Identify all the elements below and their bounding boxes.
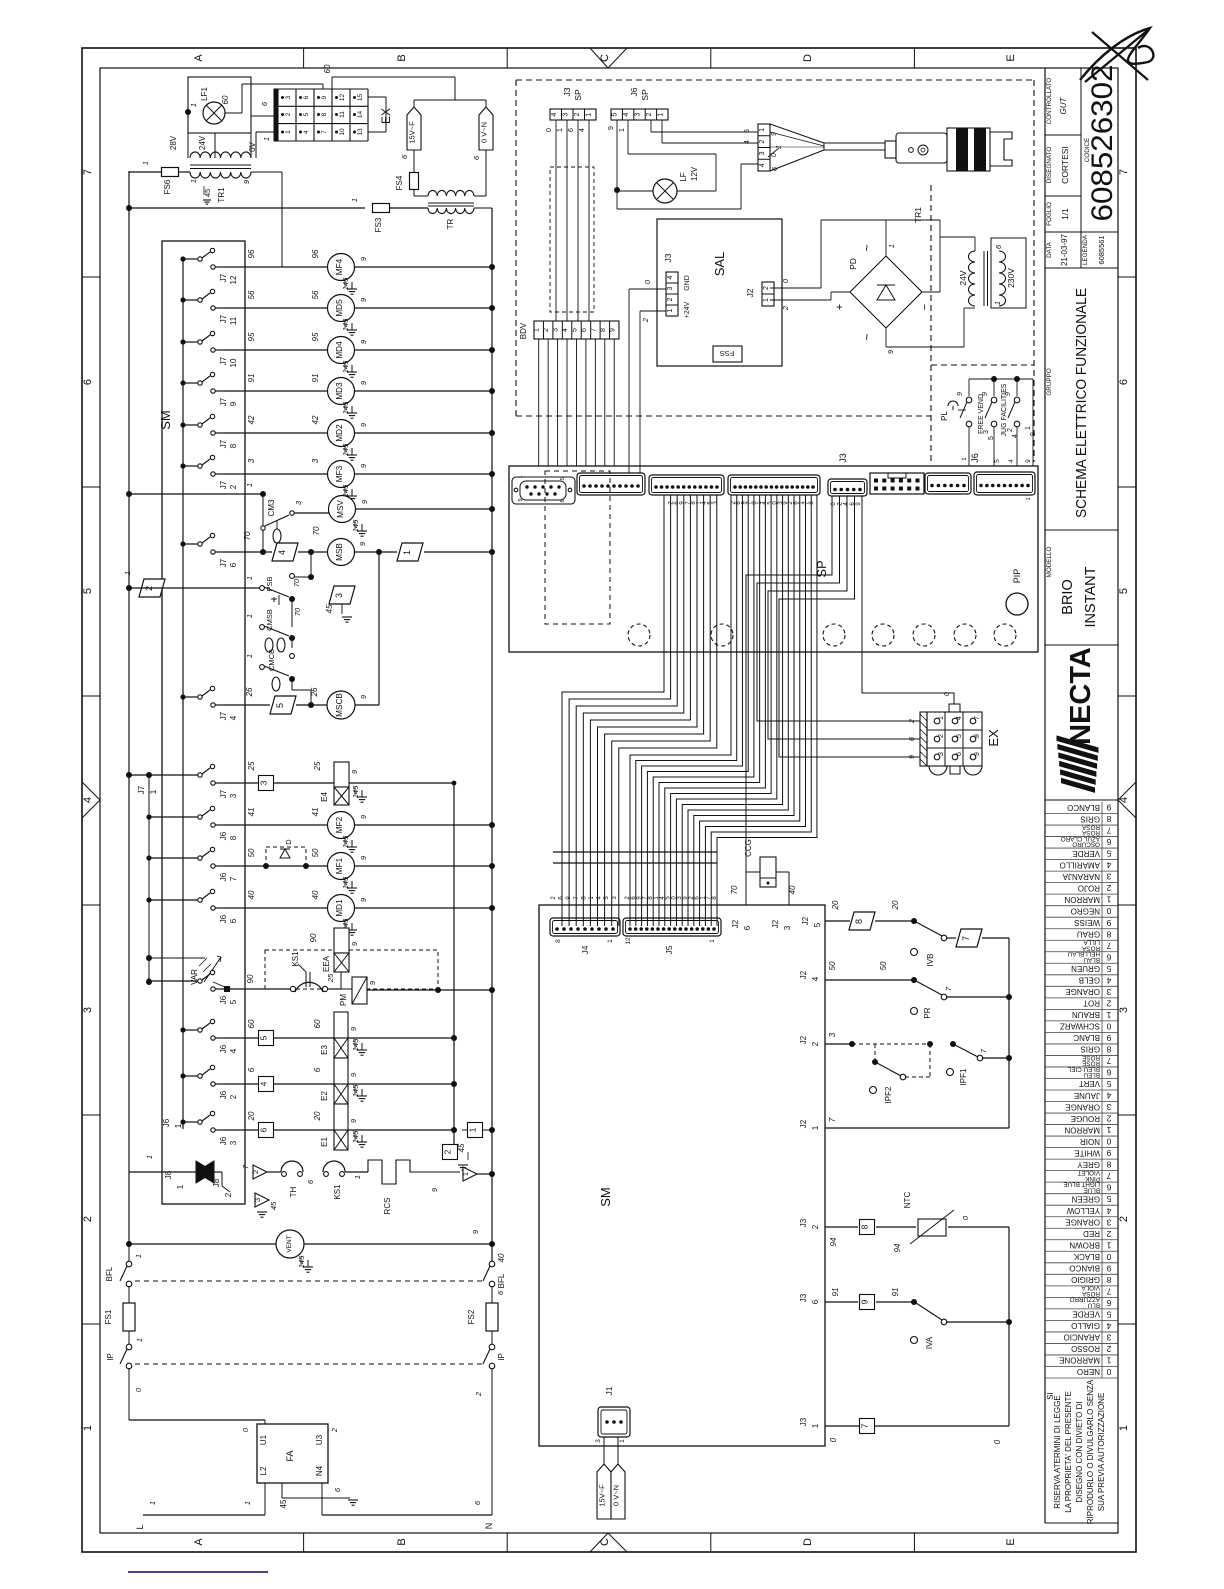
svg-text:GREEN: GREEN — [1071, 1194, 1100, 1203]
svg-text:4: 4 — [1012, 434, 1019, 438]
svg-text:7: 7 — [1106, 1171, 1111, 1181]
svg-text:12: 12 — [339, 94, 346, 102]
svg-text:11: 11 — [229, 316, 238, 325]
svg-text:3: 3 — [553, 328, 560, 332]
svg-text:9: 9 — [909, 755, 916, 759]
svg-text:1: 1 — [1025, 426, 1032, 430]
svg-text:3: 3 — [759, 151, 766, 155]
svg-text:MSV: MSV — [336, 500, 345, 518]
svg-text:1: 1 — [176, 1184, 185, 1189]
svg-text:95: 95 — [311, 332, 320, 341]
svg-text:2: 2 — [759, 140, 766, 144]
svg-text:+: + — [834, 304, 846, 310]
svg-text:1: 1 — [887, 244, 896, 248]
svg-text:3: 3 — [259, 780, 269, 785]
svg-text:7: 7 — [961, 936, 971, 941]
svg-text:96: 96 — [247, 249, 256, 258]
svg-text:0: 0 — [1106, 1252, 1111, 1262]
svg-text:3: 3 — [667, 286, 674, 290]
svg-text:91: 91 — [831, 1288, 840, 1297]
svg-text:2: 2 — [909, 719, 916, 724]
svg-text:1: 1 — [145, 1155, 154, 1159]
svg-text:15V~F: 15V~F — [408, 121, 417, 144]
svg-text:CMCB: CMCB — [267, 649, 276, 671]
svg-text:GRAU: GRAU — [1077, 929, 1100, 938]
svg-text:J7: J7 — [219, 439, 228, 448]
svg-text:20: 20 — [831, 900, 840, 910]
svg-text:1: 1 — [245, 614, 254, 618]
svg-text:1: 1 — [811, 1125, 820, 1130]
svg-text:RIPRODURLO O DIVULGARLO SENZA: RIPRODURLO O DIVULGARLO SENZA — [1086, 1379, 1095, 1524]
svg-text:4: 4 — [229, 1048, 238, 1053]
svg-text:FSS: FSS — [720, 349, 735, 358]
svg-text:TR1: TR1 — [913, 207, 923, 223]
svg-text:1: 1 — [245, 483, 254, 487]
svg-text:VERT: VERT — [1079, 1079, 1100, 1088]
svg-text:TH: TH — [289, 1186, 298, 1197]
svg-text:10: 10 — [339, 128, 346, 136]
svg-text:56: 56 — [311, 290, 320, 299]
svg-text:ORANGE: ORANGE — [1065, 1102, 1100, 1111]
svg-text:5: 5 — [572, 328, 579, 332]
svg-text:2: 2 — [82, 1216, 94, 1222]
svg-text:1: 1 — [189, 103, 198, 107]
svg-text:1: 1 — [461, 1172, 470, 1176]
svg-text:NERO: NERO — [1077, 1367, 1100, 1376]
svg-text:608526302: 608526302 — [1086, 65, 1119, 222]
svg-text:1: 1 — [134, 1254, 143, 1258]
svg-text:CM3: CM3 — [267, 499, 276, 516]
svg-text:40: 40 — [311, 890, 320, 899]
svg-text:3: 3 — [1106, 1217, 1111, 1227]
svg-text:J7: J7 — [137, 785, 146, 794]
svg-text:3: 3 — [247, 458, 256, 463]
svg-text:1: 1 — [961, 457, 968, 461]
svg-text:MF3: MF3 — [335, 465, 344, 482]
svg-text:8: 8 — [1106, 929, 1111, 939]
svg-text:E4: E4 — [320, 792, 329, 802]
svg-text:6: 6 — [1106, 837, 1111, 847]
svg-text:6: 6 — [811, 1299, 820, 1304]
svg-text:0: 0 — [546, 128, 553, 132]
svg-text:50: 50 — [247, 848, 256, 857]
svg-text:MD5: MD5 — [335, 299, 344, 317]
svg-text:9: 9 — [1025, 459, 1032, 463]
svg-text:J3: J3 — [838, 453, 848, 463]
svg-text:50: 50 — [311, 848, 320, 857]
svg-text:NEGRO: NEGRO — [1071, 906, 1100, 915]
svg-text:J7: J7 — [219, 273, 228, 282]
svg-text:70: 70 — [312, 526, 321, 535]
svg-text:ROT: ROT — [1083, 999, 1100, 1008]
svg-text:1: 1 — [811, 1423, 820, 1428]
svg-text:J2: J2 — [799, 1035, 808, 1044]
svg-text:4: 4 — [259, 1081, 269, 1086]
svg-text:3: 3 — [334, 593, 344, 598]
svg-text:BROWN: BROWN — [1069, 1241, 1100, 1250]
svg-text:BLAU: BLAU — [1083, 956, 1100, 963]
svg-text:26: 26 — [245, 687, 254, 697]
svg-text:GRUEN: GRUEN — [1071, 964, 1100, 973]
svg-text:BLANCO: BLANCO — [1067, 803, 1100, 812]
svg-text:3: 3 — [1106, 987, 1111, 997]
svg-text:CCG: CCG — [744, 839, 753, 857]
svg-text:1: 1 — [938, 716, 945, 720]
svg-text:91: 91 — [247, 374, 256, 383]
svg-text:3: 3 — [253, 1198, 262, 1202]
svg-text:1: 1 — [285, 130, 292, 134]
svg-text:9: 9 — [974, 752, 981, 756]
svg-text:4: 4 — [744, 140, 751, 144]
svg-text:2: 2 — [443, 1149, 453, 1154]
svg-text:8: 8 — [555, 939, 562, 943]
svg-text:TR: TR — [446, 218, 455, 229]
svg-text:2: 2 — [1106, 1344, 1111, 1354]
svg-text:8: 8 — [229, 835, 238, 840]
svg-text:24V: 24V — [198, 135, 207, 150]
svg-text:MSCB: MSCB — [335, 693, 344, 717]
svg-text:1: 1 — [1118, 1425, 1130, 1431]
svg-text:7: 7 — [321, 130, 328, 134]
svg-text:5: 5 — [1106, 964, 1111, 974]
svg-text:8: 8 — [1106, 1160, 1111, 1170]
svg-text:6: 6 — [259, 1127, 269, 1132]
svg-text:0: 0 — [1106, 1021, 1111, 1031]
svg-text:1: 1 — [141, 161, 150, 165]
svg-text:MARRONE: MARRONE — [1059, 1356, 1100, 1365]
svg-text:0 V~N: 0 V~N — [480, 122, 489, 143]
svg-text:1: 1 — [759, 128, 766, 132]
svg-text:VENT: VENT — [286, 1235, 293, 1252]
svg-text:ROSSO: ROSSO — [1071, 1344, 1100, 1353]
svg-text:U1: U1 — [259, 1434, 268, 1445]
svg-text:J7: J7 — [219, 356, 228, 365]
svg-text:20: 20 — [313, 1111, 322, 1121]
svg-text:12: 12 — [625, 937, 632, 945]
svg-text:RCS: RCS — [383, 1198, 392, 1215]
svg-text:2: 2 — [224, 1192, 233, 1197]
svg-text:5: 5 — [956, 734, 963, 738]
svg-text:12V: 12V — [690, 166, 699, 181]
svg-text:9: 9 — [1106, 1033, 1111, 1043]
svg-text:D: D — [802, 54, 814, 62]
svg-text:25: 25 — [247, 761, 256, 771]
svg-text:J6: J6 — [629, 87, 639, 96]
svg-text:NARANJA: NARANJA — [1062, 872, 1100, 881]
svg-text:J2: J2 — [771, 919, 780, 928]
svg-text:6: 6 — [229, 918, 238, 923]
svg-text:2: 2 — [641, 317, 650, 323]
svg-text:PL: PL — [940, 411, 949, 421]
svg-text:A: A — [193, 54, 205, 62]
svg-text:SUA PREVIA AUTORIZZAZIONE: SUA PREVIA AUTORIZZAZIONE — [1097, 1393, 1106, 1512]
svg-text:2: 2 — [1106, 883, 1111, 893]
svg-text:45: 45 — [279, 1499, 288, 1508]
svg-text:3: 3 — [1106, 1102, 1111, 1112]
svg-text:MD4: MD4 — [335, 341, 344, 359]
svg-text:7: 7 — [1106, 941, 1111, 951]
svg-text:9: 9 — [608, 126, 615, 130]
svg-text:MD1: MD1 — [335, 899, 344, 917]
svg-text:KS1: KS1 — [333, 1184, 342, 1200]
svg-text:0: 0 — [829, 1437, 838, 1442]
svg-text:BFL: BFL — [497, 1273, 506, 1288]
svg-text:EX: EX — [986, 729, 1001, 747]
svg-text:2: 2 — [1106, 1229, 1111, 1239]
svg-text:4: 4 — [1106, 1321, 1111, 1331]
svg-text:3: 3 — [1106, 872, 1111, 882]
svg-text:WEISS: WEISS — [1074, 918, 1100, 927]
svg-text:6: 6 — [568, 128, 575, 132]
svg-text:1: 1 — [619, 1439, 626, 1443]
svg-text:0: 0 — [1106, 906, 1111, 916]
svg-text:3: 3 — [938, 752, 945, 756]
svg-text:1: 1 — [262, 137, 271, 141]
svg-text:SCHWARZ: SCHWARZ — [1060, 1022, 1100, 1031]
svg-text:TR1: TR1 — [217, 187, 226, 203]
svg-text:9: 9 — [1106, 1148, 1111, 1158]
svg-text:1: 1 — [1106, 1356, 1111, 1366]
svg-text:D: D — [284, 839, 293, 845]
svg-text:J6: J6 — [219, 1044, 228, 1053]
svg-text:J2: J2 — [799, 970, 808, 979]
svg-text:SM: SM — [158, 410, 173, 430]
svg-text:2: 2 — [811, 1224, 820, 1229]
svg-text:IVB: IVB — [926, 954, 935, 967]
svg-text:70: 70 — [293, 607, 302, 616]
svg-text:20: 20 — [891, 900, 900, 910]
svg-text:5: 5 — [1106, 1309, 1111, 1319]
svg-text:2: 2 — [229, 1094, 238, 1099]
svg-text:MF1: MF1 — [335, 857, 344, 874]
svg-text:DATA: DATA — [1046, 241, 1053, 258]
svg-text:145: 145 — [351, 1038, 360, 1051]
svg-text:ARANCIO: ARANCIO — [1064, 1333, 1100, 1342]
svg-text:GRIS: GRIS — [1080, 814, 1100, 823]
svg-text:1: 1 — [189, 179, 198, 183]
svg-text:15: 15 — [357, 94, 364, 102]
svg-text:5: 5 — [303, 112, 310, 116]
svg-text:PM: PM — [339, 994, 348, 1006]
svg-text:25: 25 — [313, 761, 322, 771]
svg-text:15V~F: 15V~F — [598, 1484, 607, 1507]
svg-text:41: 41 — [247, 808, 256, 817]
svg-text:PIP: PIP — [1012, 569, 1022, 584]
svg-text:4: 4 — [277, 550, 287, 555]
svg-text:1: 1 — [245, 576, 254, 580]
svg-text:MF2: MF2 — [335, 816, 344, 833]
svg-text:LF: LF — [679, 172, 688, 181]
svg-text:J7: J7 — [219, 397, 228, 406]
svg-text:E: E — [1005, 1538, 1017, 1545]
svg-text:BRAUN: BRAUN — [1072, 1010, 1100, 1019]
svg-text:PSB: PSB — [265, 576, 274, 591]
svg-text:2: 2 — [474, 1391, 483, 1397]
svg-text:CORTESI: CORTESI — [1060, 146, 1070, 184]
svg-text:L2: L2 — [259, 1466, 268, 1475]
svg-text:NECTA: NECTA — [1065, 647, 1097, 745]
svg-text:PR: PR — [923, 1007, 932, 1018]
svg-text:FS2: FS2 — [467, 1309, 476, 1324]
svg-text:25: 25 — [326, 973, 335, 983]
svg-text:J6: J6 — [162, 1118, 171, 1127]
svg-text:LEGENDA: LEGENDA — [1082, 234, 1089, 265]
svg-text:IP: IP — [106, 1353, 115, 1361]
svg-text:J6: J6 — [219, 1136, 228, 1145]
svg-text:1: 1 — [402, 550, 412, 555]
svg-text:96: 96 — [311, 249, 320, 258]
svg-text:70: 70 — [730, 885, 739, 894]
svg-text:9: 9 — [1106, 803, 1111, 813]
svg-text:1: 1 — [657, 112, 664, 116]
svg-text:D: D — [802, 1538, 814, 1546]
svg-text:1: 1 — [709, 939, 716, 943]
svg-text:C: C — [599, 1538, 611, 1546]
svg-text:J7: J7 — [219, 789, 228, 798]
svg-text:94: 94 — [893, 1243, 902, 1252]
svg-text:2: 2 — [938, 734, 945, 738]
svg-text:5: 5 — [1106, 849, 1111, 859]
svg-text:ORANGE: ORANGE — [1065, 987, 1100, 996]
svg-text:DISEGNATO: DISEGNATO — [1046, 147, 1053, 184]
svg-text:CONTROLLATO: CONTROLLATO — [1046, 78, 1053, 125]
svg-text:CMSB: CMSB — [265, 609, 274, 631]
svg-text:45: 45 — [457, 1143, 466, 1152]
svg-text:24V: 24V — [958, 270, 968, 285]
svg-text:J7: J7 — [219, 558, 228, 567]
svg-text:5: 5 — [744, 129, 751, 133]
svg-text:2: 2 — [1118, 1216, 1130, 1222]
svg-text:BLANC: BLANC — [1073, 1033, 1100, 1042]
svg-text:145: 145 — [341, 277, 350, 290]
svg-text:3: 3 — [1106, 1332, 1111, 1342]
svg-text:4: 4 — [1106, 975, 1111, 985]
svg-text:1: 1 — [350, 198, 359, 202]
svg-text:YELLOW: YELLOW — [1066, 1206, 1100, 1215]
svg-text:1: 1 — [619, 128, 626, 132]
svg-text:J7: J7 — [219, 480, 228, 489]
svg-text:~: ~ — [860, 333, 874, 340]
svg-text:42: 42 — [247, 415, 256, 424]
svg-text:1: 1 — [518, 475, 524, 478]
svg-text:IPF2: IPF2 — [884, 1086, 893, 1103]
svg-text:40: 40 — [788, 885, 797, 894]
svg-text:MF4: MF4 — [335, 258, 344, 275]
svg-text:GREY: GREY — [1077, 1160, 1100, 1169]
svg-text:VAR: VAR — [190, 969, 199, 985]
svg-text:8: 8 — [600, 328, 607, 332]
svg-text:56: 56 — [247, 290, 256, 299]
svg-text:−: − — [919, 304, 931, 310]
svg-text:MARRON: MARRON — [1064, 1125, 1100, 1134]
svg-text:GELB: GELB — [1079, 976, 1100, 985]
svg-text:7: 7 — [1106, 1056, 1111, 1066]
svg-text:1: 1 — [149, 789, 158, 794]
svg-text:0: 0 — [944, 692, 951, 696]
svg-text:5: 5 — [1118, 588, 1130, 594]
svg-text:6: 6 — [82, 379, 94, 385]
svg-text:9: 9 — [957, 392, 964, 396]
svg-text:90: 90 — [246, 974, 255, 983]
svg-text:6: 6 — [560, 499, 566, 502]
svg-text:VERDE: VERDE — [1072, 1310, 1100, 1319]
svg-text:2: 2 — [574, 112, 581, 116]
svg-text:3: 3 — [562, 112, 569, 116]
svg-text:BDV: BDV — [519, 322, 528, 339]
svg-text:3: 3 — [311, 458, 320, 463]
svg-text:5: 5 — [275, 703, 285, 708]
svg-text:C: C — [599, 54, 611, 62]
svg-text:J6: J6 — [219, 995, 228, 1004]
svg-text:GUT: GUT — [1059, 96, 1068, 114]
svg-text:E: E — [1005, 54, 1017, 61]
svg-text:6: 6 — [229, 562, 238, 567]
svg-text:145: 145 — [341, 401, 350, 414]
svg-text:J3: J3 — [799, 1293, 808, 1302]
svg-text:4: 4 — [667, 275, 674, 279]
svg-text:0 V~N: 0 V~N — [612, 1485, 621, 1506]
svg-text:FA: FA — [285, 1450, 295, 1461]
svg-text:2: 2 — [811, 1041, 820, 1046]
svg-text:MSB: MSB — [335, 543, 344, 561]
svg-text:9: 9 — [321, 95, 328, 99]
svg-text:4: 4 — [623, 112, 630, 116]
svg-text:70: 70 — [243, 531, 252, 540]
svg-text:2: 2 — [543, 328, 550, 332]
svg-text:6085561: 6085561 — [1097, 235, 1106, 264]
svg-text:94: 94 — [829, 1237, 838, 1246]
svg-text:145: 145 — [351, 1084, 360, 1097]
svg-text:28V: 28V — [169, 135, 178, 150]
svg-text:RED: RED — [1083, 1229, 1100, 1238]
svg-text:8: 8 — [1106, 1275, 1111, 1285]
svg-text:42: 42 — [311, 415, 320, 424]
svg-text:LF1: LF1 — [200, 87, 209, 101]
svg-text:J3: J3 — [799, 1218, 808, 1227]
svg-text:6: 6 — [1106, 1068, 1111, 1078]
svg-text:1: 1 — [82, 1425, 94, 1431]
svg-text:40: 40 — [497, 1253, 506, 1262]
svg-text:13: 13 — [357, 128, 364, 136]
svg-text:12: 12 — [229, 275, 238, 284]
svg-text:4: 4 — [1106, 1091, 1111, 1101]
svg-text:2: 2 — [763, 286, 770, 290]
svg-text:J6: J6 — [219, 831, 228, 840]
svg-text:BFL: BFL — [105, 1266, 114, 1281]
svg-text:J3: J3 — [663, 253, 673, 262]
svg-text:BLUE: BLUE — [1084, 1186, 1100, 1193]
svg-text:6: 6 — [313, 1067, 322, 1072]
svg-text:7: 7 — [229, 876, 238, 881]
svg-text:FS3: FS3 — [374, 217, 383, 232]
svg-text:1: 1 — [243, 1501, 252, 1505]
svg-text:10: 10 — [229, 358, 238, 367]
svg-text:J6: J6 — [219, 914, 228, 923]
svg-text:IP: IP — [497, 1353, 506, 1361]
svg-text:21-03-97: 21-03-97 — [1060, 233, 1069, 266]
svg-text:E2: E2 — [320, 1091, 329, 1101]
svg-text:6: 6 — [247, 1067, 256, 1072]
svg-text:145: 145 — [341, 318, 350, 331]
svg-text:J2: J2 — [731, 919, 740, 928]
svg-text:BLU: BLU — [1087, 1302, 1100, 1309]
svg-text:9: 9 — [518, 498, 524, 501]
svg-text:2: 2 — [330, 1427, 339, 1433]
svg-text:145: 145 — [351, 785, 360, 798]
svg-text:J4: J4 — [580, 945, 590, 954]
svg-text:26: 26 — [310, 687, 319, 697]
svg-text:MODELLO: MODELLO — [1046, 547, 1053, 578]
